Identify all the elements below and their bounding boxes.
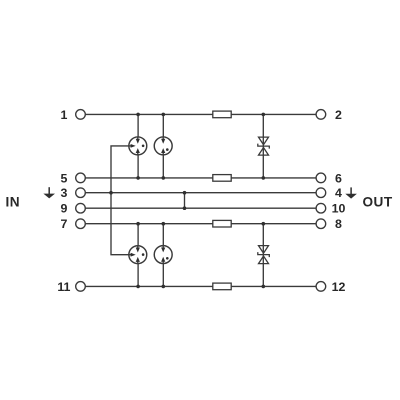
svg-text:11: 11 <box>57 280 70 294</box>
svg-text:12: 12 <box>332 280 346 294</box>
svg-text:IN: IN <box>6 194 21 209</box>
svg-text:9: 9 <box>60 202 67 216</box>
svg-text:2: 2 <box>335 108 342 122</box>
svg-text:4: 4 <box>335 186 342 200</box>
svg-text:7: 7 <box>60 217 67 231</box>
svg-text:6: 6 <box>335 171 342 185</box>
svg-text:1: 1 <box>60 108 67 122</box>
svg-text:OUT: OUT <box>362 194 392 209</box>
svg-text:8: 8 <box>335 217 342 231</box>
svg-text:5: 5 <box>60 171 67 185</box>
svg-text:3: 3 <box>60 186 67 200</box>
svg-text:10: 10 <box>332 202 346 216</box>
